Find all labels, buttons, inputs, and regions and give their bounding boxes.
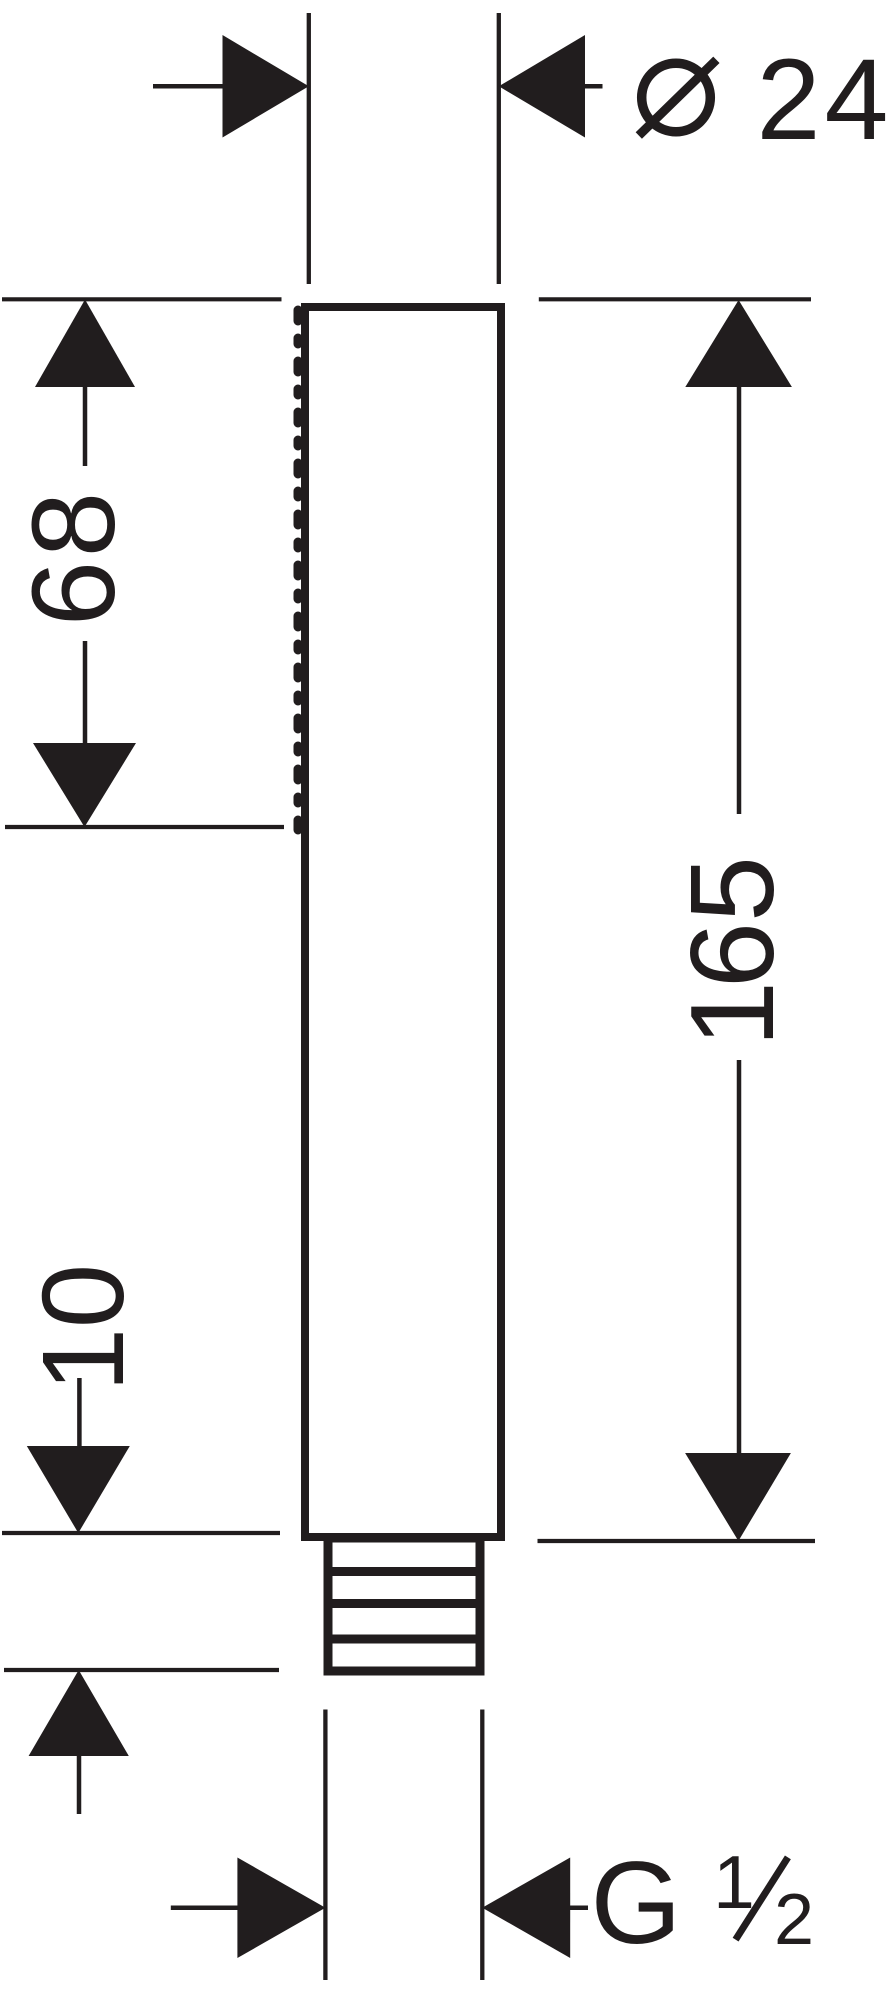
svg-text:1: 1 [666,981,799,1047]
svg-text:6: 6 [666,922,799,988]
extension line right of G1/2 dimension [480,1710,484,1981]
hand shower body outline [305,307,501,1537]
fraction slash [736,1857,788,1939]
G1/2 thread connector outline [328,1538,480,1671]
68 dimension line upper segment [83,386,88,466]
thread connector rib line 3 [328,1635,480,1644]
Ø24 left arrowhead [223,35,309,138]
Ø24 right arrow tail [585,84,603,89]
10 dimension up arrowhead [29,1670,129,1756]
68 dimension top reference line [2,297,282,301]
svg-text:G: G [591,1837,682,1968]
Ø24 right arrowhead [499,35,585,138]
diameter symbol circle of Ø24 label [642,63,711,132]
svg-text:5: 5 [666,856,799,922]
svg-text:2: 2 [774,1880,814,1960]
svg-text:8: 8 [8,492,140,558]
spray face texture (nubs on left edge of hand shower) [294,310,303,830]
svg-text:24: 24 [757,36,893,164]
68 dimension top arrowhead [35,300,135,388]
extension line left of G1/2 dimension [323,1710,327,1981]
G1/2 left arrow tail [171,1905,250,1910]
165 dimension bottom reference line [538,1539,816,1543]
165 dimension line lower segment [737,1060,742,1454]
extension line left of Ø24 dimension [307,13,311,284]
G1/2 right arrowhead [482,1858,570,1959]
diameter symbol slash of Ø24 label [639,60,717,136]
G1/2 right arrow tail [570,1905,588,1910]
thread connector rib line 1 [328,1567,480,1576]
165 dimension top reference line [539,297,811,301]
10 dimension down arrowhead [27,1446,130,1533]
165 dimension top arrowhead [685,300,792,387]
G1/2 left arrowhead [237,1858,325,1959]
10 dimension line segment [77,1378,82,1446]
extension line right of Ø24 dimension [497,13,501,284]
svg-text:1: 1 [18,1328,148,1393]
165 dimension bottom arrowhead [685,1453,791,1541]
svg-text:6: 6 [8,561,140,627]
svg-text:0: 0 [18,1264,148,1329]
10 dimension upper reference line [2,1531,280,1535]
165 dimension line upper segment [737,386,742,814]
68 dimension line lower segment [83,641,88,744]
68 dimension bottom arrowhead [33,743,136,827]
68 dimension bottom reference line [5,825,284,829]
svg-text:1: 1 [713,1840,755,1924]
thread connector rib line 2 [328,1599,480,1608]
10 dimension lower reference line [4,1668,279,1672]
10 dimension lower arrow stub [77,1755,82,1814]
Ø24 left arrow tail [153,84,240,89]
